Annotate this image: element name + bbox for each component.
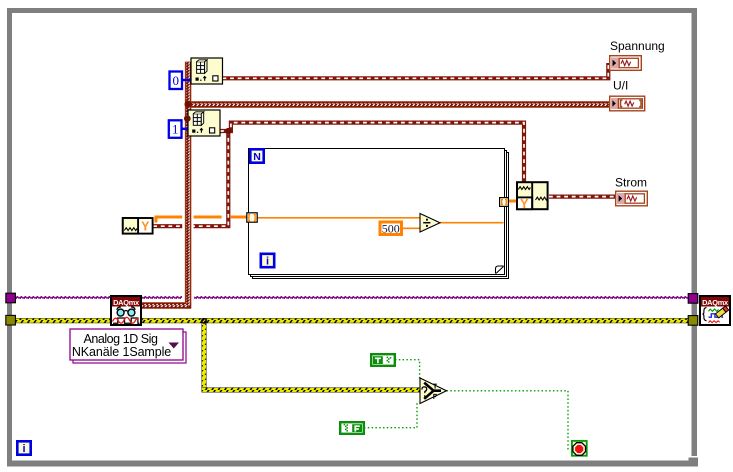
svg-text:i: i [22,443,25,455]
svg-text:NKanäle 1Sample: NKanäle 1Sample [72,345,171,359]
svg-text:U/I: U/I [613,79,628,93]
svg-text:Y: Y [520,197,529,211]
svg-text:Y: Y [141,220,150,234]
svg-text:DAQmx: DAQmx [113,298,140,307]
svg-text:DAQmx: DAQmx [702,298,729,307]
svg-text:i: i [266,256,269,268]
svg-text:Spannung: Spannung [610,39,665,53]
svg-text:1: 1 [172,122,179,137]
svg-text:Analog 1D Sig: Analog 1D Sig [83,332,158,346]
svg-text:0: 0 [173,73,180,88]
svg-text:Strom: Strom [615,176,647,190]
svg-text:500: 500 [382,221,400,235]
svg-text:N: N [253,151,261,163]
